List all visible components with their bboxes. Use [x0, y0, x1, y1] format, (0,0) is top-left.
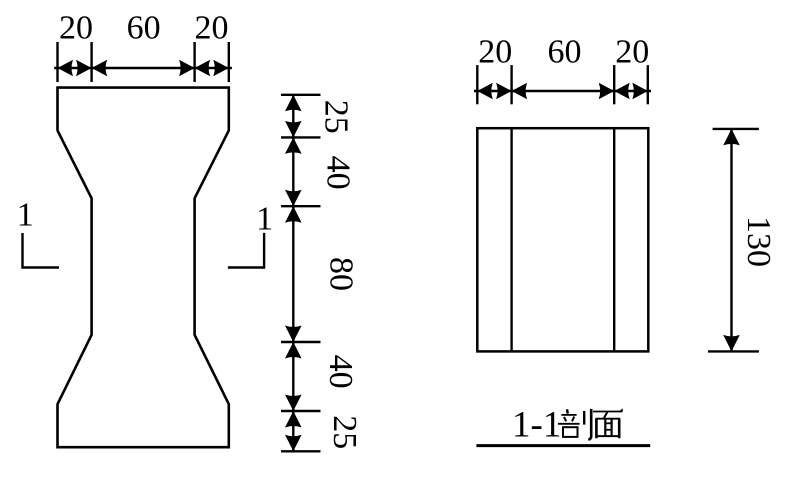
svg-text:25: 25 — [326, 415, 363, 449]
arrowhead up at y128.9 — [723, 129, 740, 146]
arrowhead right at x647.8 — [632, 83, 648, 100]
svg-text:60: 60 — [548, 34, 582, 71]
right chain tick y137.4 — [281, 136, 321, 138]
top dimension line (left figure) — [54, 67, 232, 69]
arrowhead left at x194.6 — [195, 60, 211, 77]
extension line left inner (top dim, left figure) — [90, 42, 92, 82]
svg-text:20: 20 — [59, 10, 93, 47]
130 dim top tick — [713, 128, 759, 130]
extension line left inner (top dim, right figure) — [510, 65, 512, 104]
arrowhead down at y351.4 — [723, 335, 740, 352]
inner line left (right figure) — [510, 128, 512, 351]
right chain dimension line — [292, 95, 294, 452]
section mark left — [23, 233, 60, 268]
right chain tick y342 — [281, 341, 321, 343]
svg-text:25: 25 — [318, 100, 355, 134]
left elevation outline — [58, 88, 229, 448]
section mark right — [228, 233, 264, 268]
130 dimension line — [730, 129, 732, 352]
svg-text:20: 20 — [615, 34, 649, 71]
svg-text:80: 80 — [323, 257, 360, 291]
arrowhead right at x228.8 — [213, 60, 229, 77]
svg-text:40: 40 — [320, 156, 357, 190]
svg-text:1: 1 — [17, 197, 34, 234]
extension line right inner (top dim, left figure) — [193, 42, 195, 82]
arrowhead down at y342 — [285, 326, 302, 343]
right chain tick y451.3 — [281, 450, 321, 452]
right chain tick y411 — [281, 410, 321, 412]
arrowhead right at x194.6 — [179, 60, 195, 77]
section rectangle (right figure) — [477, 128, 648, 351]
arrowhead left at x511.6 — [512, 83, 527, 100]
extension line right outer (top dim, right figure) — [647, 65, 649, 104]
svg-text:20: 20 — [478, 34, 512, 71]
svg-text:1-1: 1-1 — [512, 405, 561, 446]
extension line left outer (top dim, left figure) — [56, 42, 58, 82]
arrowhead down at y411 — [285, 395, 302, 412]
arrowhead up at y206.2 — [285, 206, 302, 223]
arrowhead down at y137.4 — [285, 121, 302, 137]
130 dim bottom tick — [708, 350, 759, 352]
svg-text:1: 1 — [256, 201, 273, 238]
svg-text:40: 40 — [322, 355, 359, 389]
caption underline — [476, 444, 650, 447]
glyph pou (剖) — [558, 409, 591, 440]
glyph mian (面) — [593, 408, 623, 438]
svg-text:20: 20 — [195, 10, 229, 47]
arrowhead left at x91.6 — [92, 60, 108, 77]
svg-text:130: 130 — [740, 216, 777, 267]
arrowhead up at y137.4 — [285, 137, 302, 154]
extension line right outer (top dim, left figure) — [228, 42, 230, 82]
arrowhead left at x477.3 — [477, 83, 493, 100]
extension line left outer (top dim, right figure) — [476, 65, 478, 104]
arrowhead right at x614.2 — [599, 83, 615, 100]
right chain tick y206.2 — [281, 205, 321, 207]
inner line right (right figure) — [613, 128, 615, 351]
right chain tick y94.8 — [281, 94, 321, 96]
arrowhead down at y206.2 — [285, 190, 302, 207]
svg-text:60: 60 — [127, 10, 161, 47]
arrowhead up at y94.8 — [285, 95, 302, 112]
top dimension line (right figure) — [474, 90, 651, 92]
arrowhead right at x511.6 — [496, 83, 512, 100]
arrowhead left at x57.5 — [58, 60, 74, 77]
arrowhead down at y451.3 — [285, 435, 302, 452]
extension line right inner (top dim, right figure) — [613, 65, 615, 104]
arrowhead left at x614.2 — [614, 83, 630, 100]
arrowhead right at x91.6 — [76, 60, 92, 77]
arrowhead up at y342 — [285, 342, 302, 359]
arrowhead up at y411 — [285, 411, 302, 428]
